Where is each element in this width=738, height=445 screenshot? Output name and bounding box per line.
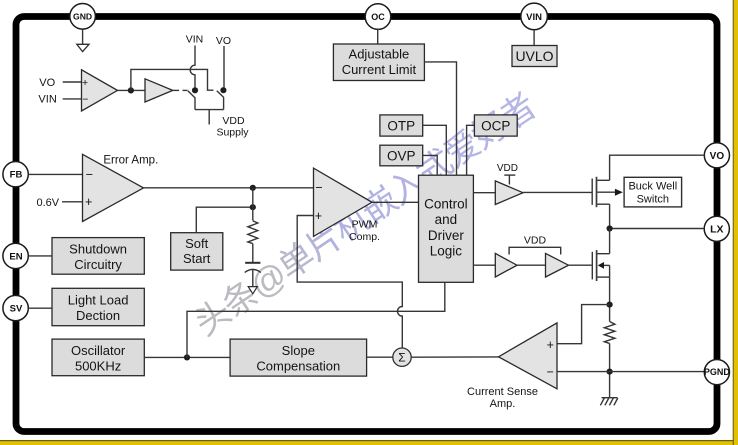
page yellow edge bottom — [0, 441, 738, 445]
svg-text:VDD: VDD — [497, 163, 518, 174]
label VIN (top) — [186, 34, 204, 46]
wire: Adjustable Current Limit to Control logic — [424, 62, 456, 175]
pin VIN — [521, 3, 548, 30]
ground arrow (GND) — [77, 44, 89, 51]
wire: FB to error amp inverting input — [28, 173, 82, 175]
wire: LX to Q2 drain — [609, 229, 611, 254]
svg-text:VIN: VIN — [526, 12, 542, 23]
svg-text:Σ: Σ — [398, 351, 405, 365]
block: OVP — [380, 145, 423, 166]
wire: summer feedback up to PWM + input (with hop) — [297, 216, 402, 349]
node: sense resistor top junction — [607, 302, 613, 308]
page yellow edge right — [733, 0, 738, 445]
node: SW1 pivot (VIN) — [192, 87, 198, 93]
svg-text:VO: VO — [216, 35, 231, 47]
svg-text:Current Sense: Current Sense — [467, 386, 538, 398]
pin EN — [3, 243, 28, 268]
node: error amp output junction — [250, 185, 256, 191]
wire: EN to Shutdown Circuitry — [28, 255, 52, 257]
wire: current sense - input to PGND — [557, 371, 704, 373]
wire: GND pin to ground arrow — [82, 29, 84, 44]
switch SW1 (VIN select) — [183, 90, 196, 109]
wire: VIN pin to UVLO — [533, 30, 535, 46]
block: UVLO — [512, 46, 557, 67]
wire: VO label to comparator U1 — [63, 81, 82, 83]
block: Adjustable Current Limit — [333, 44, 424, 81]
pin LX — [704, 216, 729, 241]
pin VO — [704, 143, 729, 168]
node: soft start junction — [250, 204, 256, 210]
wire: VO down to SW2 — [223, 46, 225, 87]
wire: summer to current sense amp output — [411, 356, 498, 358]
block: Slope Compensation — [230, 339, 367, 376]
node: oscillator output junction — [184, 354, 190, 360]
label VIN (comparator input) — [38, 94, 56, 106]
wire: driver U3 to Q1 gate — [523, 191, 592, 193]
svg-text:Shutdown: Shutdown — [69, 242, 127, 257]
svg-text:EN: EN — [9, 251, 22, 262]
svg-text:LX: LX — [710, 224, 723, 236]
svg-text:Driver: Driver — [428, 228, 465, 243]
label VDD Supply — [216, 115, 249, 138]
wire: Q1 body to Buck Well Switch (arrow) — [597, 189, 623, 196]
svg-text:Comp.: Comp. — [349, 231, 380, 243]
wire: control logic to top driver — [473, 192, 495, 194]
svg-text:Current Limit: Current Limit — [342, 62, 417, 77]
buffer U2 — [145, 79, 173, 102]
wire: compensation branch down — [252, 188, 254, 221]
op-amp PWM comparator — [314, 168, 373, 236]
svg-text:Supply: Supply — [216, 126, 249, 138]
wire: OTP to Control logic — [423, 125, 447, 175]
wire: Q1 source to LX node — [609, 204, 611, 228]
svg-text:−: − — [315, 181, 322, 195]
block: OTP — [380, 115, 423, 136]
VDD supply tap (top driver) — [504, 175, 515, 184]
wire: SV to Light Load Dection — [28, 307, 52, 309]
summer node (sigma) — [393, 348, 411, 366]
VDD supply bracket (bottom drivers) — [509, 247, 561, 254]
svg-text:and: and — [435, 212, 458, 227]
label Error Amp. — [103, 154, 158, 166]
svg-text:GND: GND — [73, 12, 92, 22]
wire: R2 to ground node — [609, 343, 611, 397]
capacitor C1 (compensation) — [245, 263, 261, 273]
ground arrow (compensation) — [248, 287, 257, 294]
wire: C1 down — [252, 270, 254, 287]
wire: U1 output up and over to switch SW2 contact — [131, 69, 214, 90]
pin SV — [3, 295, 28, 320]
ground (chassis, sense resistor) — [600, 398, 617, 406]
pin OC — [365, 4, 391, 30]
wire: U1 output to buffer U2 — [118, 89, 146, 91]
wire: OVP to Control logic — [423, 155, 438, 175]
wire: PWM comparator output to control logic — [372, 201, 419, 203]
wire: clock to control logic — [187, 282, 445, 357]
switch SW2 (VO select) — [217, 91, 224, 110]
svg-text:Amp.: Amp. — [490, 398, 516, 410]
svg-text:−: − — [547, 365, 554, 379]
svg-text:VO: VO — [710, 151, 725, 162]
wire: LX node to LX pin — [610, 228, 705, 230]
svg-text:VIN: VIN — [38, 94, 56, 106]
svg-text:Slope: Slope — [282, 343, 315, 358]
driver U5 (low side 2) — [546, 253, 569, 277]
block: Shutdown Circuitry — [52, 238, 144, 275]
node: PGND junction — [607, 369, 613, 375]
svg-text:VIN: VIN — [186, 34, 204, 46]
svg-text:Start: Start — [183, 251, 211, 266]
svg-text:VDD: VDD — [222, 115, 245, 127]
wire: 0.6V to error amp non-inverting input — [62, 201, 83, 203]
svg-text:PGND: PGND — [704, 367, 731, 377]
svg-text:Error Amp.: Error Amp. — [103, 154, 158, 166]
svg-text:Light Load: Light Load — [68, 293, 129, 308]
wire: VIN label to comparator U1 — [63, 98, 82, 100]
block: Soft Start — [171, 233, 223, 270]
wire: R1 to C1 — [252, 244, 254, 263]
svg-text:OCP: OCP — [481, 118, 510, 133]
label VO (top) — [216, 35, 231, 47]
driver U4 (low side 1) — [495, 253, 517, 277]
node: SW2 pivot (VO) — [220, 87, 226, 93]
svg-text:PWM: PWM — [352, 219, 378, 231]
svg-text:UVLO: UVLO — [515, 48, 553, 64]
wire: error amp output to PWM comparator — [144, 187, 314, 189]
svg-text:OVP: OVP — [387, 148, 416, 163]
svg-text:FB: FB — [10, 170, 23, 181]
pin PGND — [704, 360, 731, 385]
block: Buck Well Switch — [624, 177, 682, 207]
node: U1 output junction — [128, 87, 134, 93]
wire: oscillator to slope compensation — [144, 356, 230, 358]
label Current Sense Amp. — [467, 386, 538, 410]
transistor Q2 (low side NMOS) — [592, 250, 609, 281]
resistor R1 (compensation) — [248, 221, 258, 244]
svg-text:+: + — [85, 195, 92, 209]
driver U3 (high side) — [495, 181, 523, 205]
svg-text:Oscillator: Oscillator — [71, 343, 126, 358]
wire: slope compensation to summer — [367, 356, 393, 358]
wire: switch common bracket to VDD supply — [195, 110, 224, 125]
comparator U1 (VO/VIN supply selector) — [82, 70, 118, 111]
block: Control and Driver Logic — [419, 175, 474, 282]
wire: VO pin to Q1 drain — [610, 155, 705, 180]
svg-text:Logic: Logic — [430, 244, 463, 259]
svg-text:Dection: Dection — [76, 308, 120, 323]
wire: U5 to Q2 gate — [569, 264, 592, 266]
svg-text:−: − — [86, 168, 93, 182]
pin GND — [70, 3, 96, 29]
wire: OCP to Control logic — [467, 125, 475, 175]
label 0.6V — [36, 197, 59, 209]
svg-text:Switch: Switch — [637, 194, 669, 206]
node: LX junction — [607, 225, 613, 231]
svg-text:−: − — [82, 94, 88, 106]
label VDD (top driver) — [497, 163, 518, 174]
op-amp Error Amp — [83, 154, 144, 221]
wire: control logic to low side driver — [473, 264, 495, 266]
label VO (comparator input) — [39, 77, 55, 89]
svg-text:VO: VO — [39, 77, 55, 89]
wire: VIN down with hop over horizontal wire — [190, 46, 195, 88]
svg-text:SV: SV — [10, 304, 23, 315]
label VDD (bottom drivers) — [524, 234, 547, 246]
wire: Soft Start to compensation node — [196, 207, 253, 233]
svg-text:500KHz: 500KHz — [75, 359, 121, 374]
block: Light Load Dection — [52, 288, 144, 325]
svg-text:OTP: OTP — [387, 118, 415, 133]
svg-text:VDD: VDD — [524, 234, 547, 246]
resistor R2 (current sense) — [604, 322, 615, 344]
wire: Q2 source down to sense resistor — [609, 277, 611, 321]
svg-text:+: + — [547, 338, 554, 352]
block: Oscillator 500KHz — [52, 339, 144, 376]
svg-text:0.6V: 0.6V — [36, 197, 59, 209]
transistor Q1 (high side NMOS) — [592, 177, 609, 207]
svg-text:Soft: Soft — [185, 236, 209, 251]
svg-text:Buck Well: Buck Well — [628, 181, 677, 193]
wire: OC pin to Adjustable Current Limit — [377, 29, 379, 44]
svg-text:+: + — [82, 77, 88, 89]
pin FB — [3, 162, 28, 187]
svg-text:Compensation: Compensation — [256, 359, 340, 374]
wire: U2 output stub — [173, 89, 179, 91]
svg-text:+: + — [315, 209, 322, 223]
svg-text:OC: OC — [371, 12, 385, 22]
svg-text:Adjustable: Adjustable — [349, 47, 410, 62]
op-amp Current Sense Amp — [499, 323, 558, 389]
block: OCP — [474, 115, 517, 136]
wire: current sense + input — [557, 305, 610, 344]
svg-text:Circuitry: Circuitry — [74, 257, 122, 272]
label PWM Comp. — [349, 219, 380, 243]
svg-text:Control: Control — [424, 196, 468, 211]
wire: U4 to U5 — [517, 264, 546, 266]
